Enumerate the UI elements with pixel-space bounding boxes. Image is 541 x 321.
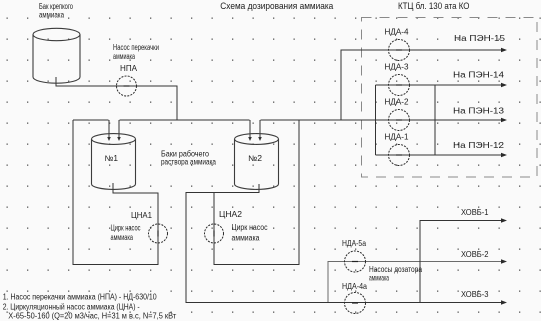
svg-text:НДА-4а: НДА-4а [342,282,367,291]
svg-text:аммиака: аммиака [232,233,260,242]
svg-text:КТЦ бл. 130 ата КО: КТЦ бл. 130 ата КО [398,1,470,11]
svg-text:ХОВБ-3: ХОВБ-3 [461,290,489,299]
svg-text:На ПЭН-12: На ПЭН-12 [453,141,505,150]
svg-text:ХОВБ-2: ХОВБ-2 [461,250,489,259]
svg-text:НДА-1: НДА-1 [385,132,410,141]
svg-text:2. Циркуляционный насос аммиак: 2. Циркуляционный насос аммиака (ЦНА) - [3,302,140,311]
svg-text:ЦНА2: ЦНА2 [219,210,243,219]
svg-text:ЦНА1: ЦНА1 [131,211,153,220]
svg-text:Бак крепкого: Бак крепкого [39,2,73,11]
svg-text:На ПЭН-13: На ПЭН-13 [453,107,505,116]
svg-text:НДА-3: НДА-3 [385,62,410,71]
svg-text:На ПЭН-14: На ПЭН-14 [453,71,505,80]
svg-text:Х-65-50-160 (Q=20 м3/час, Н=31: Х-65-50-160 (Q=20 м3/час, Н=31 м в.с, N=… [8,312,176,321]
svg-text:Насос перекачки: Насос перекачки [113,43,159,52]
svg-text:Схема дозирования аммиака: Схема дозирования аммиака [220,1,334,11]
svg-text:НДА-5а: НДА-5а [342,239,366,248]
svg-text:На ПЭН-15: На ПЭН-15 [454,34,506,43]
svg-text:НПА: НПА [120,64,138,73]
svg-text:аммиака: аммиака [113,52,135,61]
svg-text:№1: №1 [105,154,119,163]
svg-text:аммиака: аммиака [369,273,389,282]
svg-text:НДА-4: НДА-4 [385,27,410,36]
svg-text:Цирк насос: Цирк насос [111,224,141,233]
svg-text:НДА-2: НДА-2 [385,97,410,106]
svg-text:Цирк насос: Цирк насос [232,223,268,232]
svg-text:аммиака: аммиака [39,11,64,20]
svg-text:1. Насос перекачки аммиака (НП: 1. Насос перекачки аммиака (НПА) - НД-63… [3,293,157,302]
svg-text:№2: №2 [248,154,263,163]
svg-text:ХОВБ-1: ХОВБ-1 [461,208,489,217]
svg-text:аммиака: аммиака [111,233,134,242]
svg-text:раствора аммиака: раствора аммиака [161,157,216,166]
